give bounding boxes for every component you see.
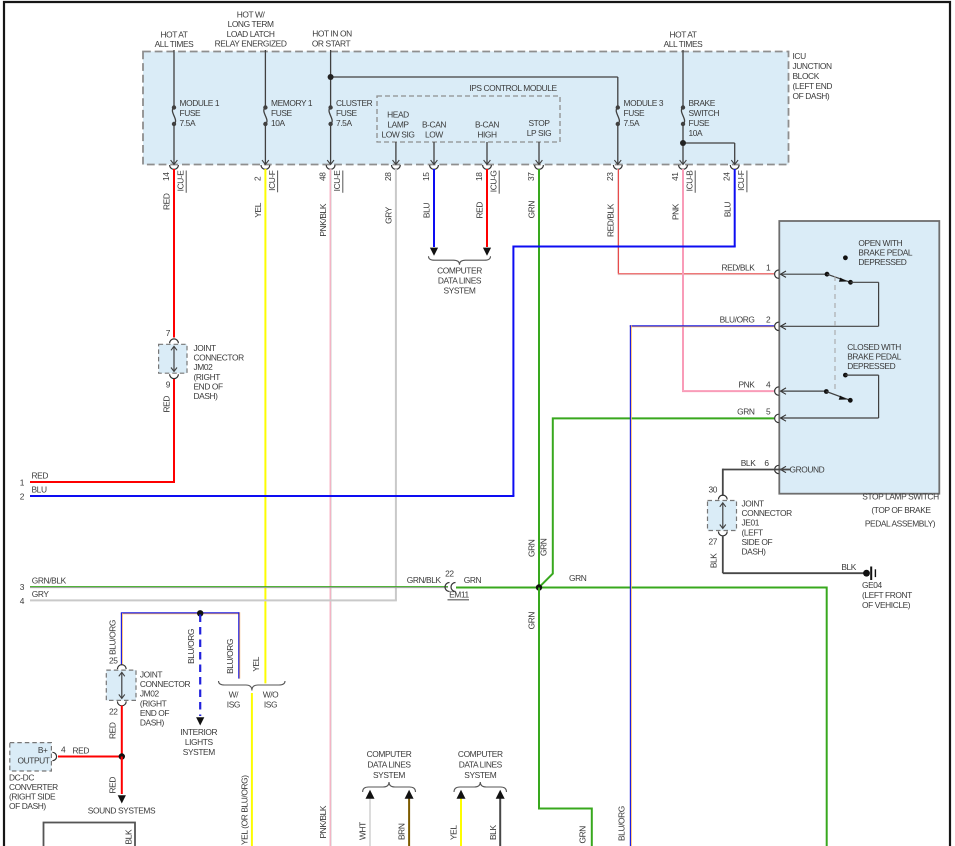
svg-text:ICU-E: ICU-E (332, 170, 342, 192)
svg-text:GRN: GRN (527, 612, 537, 630)
switch lower contact to pin 5 (781, 373, 879, 422)
merge brace W/ISG / W/O ISG (219, 681, 286, 710)
ground GE04 (863, 567, 875, 581)
switch upper (open with brake pedal depressed) (843, 238, 913, 267)
svg-text:GRN: GRN (527, 539, 537, 557)
svg-text:RED: RED (107, 777, 117, 794)
node HOT W/ LONG TERM LOAD LATCH RELAY ENERGIZED (215, 10, 287, 49)
svg-text:6: 6 (764, 458, 769, 468)
svg-text:DEPRESSED: DEPRESSED (858, 257, 906, 267)
pin 15 at ICU bottom edge (421, 165, 438, 181)
svg-text:JM02: JM02 (194, 362, 214, 372)
edge node 3 label (20, 575, 67, 592)
wire Cluster fuse to pin 48 (327, 124, 334, 165)
svg-text:24: 24 (722, 172, 732, 181)
svg-text:OF DASH): OF DASH) (793, 91, 830, 101)
svg-text:MODULE 3: MODULE 3 (624, 98, 664, 108)
wire BLK to computer data lines (bottom) (488, 790, 505, 846)
svg-text:DASH): DASH) (194, 391, 219, 401)
svg-text:ICU-G: ICU-G (489, 171, 499, 193)
svg-text:4: 4 (20, 596, 25, 606)
svg-text:COMPUTER: COMPUTER (437, 266, 482, 276)
stop lamp switch pin 4 (738, 380, 826, 396)
svg-text:RED/BLK: RED/BLK (721, 263, 755, 273)
svg-text:ICU: ICU (793, 51, 807, 61)
label GRN (vertical pair) (527, 538, 549, 557)
svg-text:PNK: PNK (738, 380, 755, 390)
svg-text:7.5A: 7.5A (336, 118, 352, 128)
pin 2 (ICU-F) at ICU bottom edge (252, 165, 277, 192)
svg-text:W/O: W/O (263, 690, 279, 700)
joint connector JM02 upper (pins 7/9) (159, 328, 187, 390)
joint connector JE01 (pins 30/27) (708, 485, 737, 547)
svg-text:DC-DC: DC-DC (9, 773, 34, 783)
svg-text:RED: RED (32, 471, 49, 481)
svg-text:(TOP OF BRAKE: (TOP OF BRAKE (871, 505, 931, 515)
system reference INTERIOR LIGHTS SYSTEM (180, 727, 217, 757)
svg-text:CONVERTER: CONVERTER (9, 782, 58, 792)
svg-text:OUTPUT: OUTPUT (17, 756, 49, 766)
wire RED to sound systems (arrow) (107, 757, 126, 804)
svg-text:OF VEHICLE): OF VEHICLE) (862, 600, 911, 610)
svg-text:BRN: BRN (397, 823, 407, 840)
system reference COMPUTER DATA LINES (bottom right) (454, 749, 507, 792)
DC-DC converter (B+ output box) (10, 743, 57, 771)
svg-text:MODULE 1: MODULE 1 (180, 98, 220, 108)
svg-text:HIGH: HIGH (477, 130, 497, 140)
svg-text:SOUND SYSTEMS: SOUND SYSTEMS (88, 806, 156, 816)
stop lamp switch pin 1 (721, 263, 827, 279)
svg-text:GRN/BLK: GRN/BLK (407, 575, 442, 585)
pin 24 (ICU-F) at ICU bottom edge (722, 165, 747, 192)
switch blade upper (825, 272, 853, 285)
svg-text:CLUSTER: CLUSTER (336, 98, 373, 108)
fuse MODULE 3 7.5A (616, 98, 664, 128)
svg-text:HEAD: HEAD (387, 110, 409, 120)
svg-text:JOINT: JOINT (742, 499, 764, 509)
IPS signal B-CAN HIGH (475, 120, 499, 165)
svg-text:4: 4 (61, 745, 66, 755)
svg-text:FUSE: FUSE (271, 108, 293, 118)
svg-text:YEL (OR BLU/ORG): YEL (OR BLU/ORG) (240, 775, 250, 845)
wire BLU/ORG branch (W/ ISG) (225, 612, 240, 678)
svg-text:10A: 10A (689, 128, 704, 138)
wire GRN junction down to bottom jog (527, 588, 592, 846)
svg-text:7.5A: 7.5A (180, 118, 196, 128)
wire GRN from EM11 to junction (456, 587, 539, 589)
wire PNK/BLK pin48 down to bottom (318, 169, 331, 846)
svg-text:DATA LINES: DATA LINES (367, 760, 411, 770)
svg-text:LP SIG: LP SIG (527, 128, 551, 138)
svg-text:(RIGHT: (RIGHT (140, 698, 167, 708)
fuse MEMORY 1 10A (263, 98, 313, 128)
wire RED JM02 pin22 to junction (107, 706, 121, 757)
wire Module 1 fuse to pin 14 (171, 124, 178, 165)
svg-text:1: 1 (20, 478, 25, 488)
svg-text:ICU-B: ICU-B (685, 170, 695, 192)
junction RED (119, 753, 125, 759)
svg-text:DEPRESSED: DEPRESSED (847, 361, 895, 371)
svg-text:LAMP: LAMP (387, 120, 409, 130)
svg-text:GROUND: GROUND (790, 465, 825, 475)
svg-text:DATA LINES: DATA LINES (459, 760, 503, 770)
pin 14 (ICU-E) at ICU bottom edge (161, 165, 186, 193)
svg-text:RED: RED (73, 746, 90, 756)
junction (hot in on branch) (328, 74, 334, 80)
wire feed to Memory 1 fuse (264, 50, 266, 108)
svg-text:3: 3 (20, 582, 25, 592)
svg-text:15: 15 (421, 172, 431, 181)
svg-text:GRY: GRY (32, 589, 50, 599)
svg-text:BLU: BLU (722, 202, 732, 217)
svg-text:LOW SIG: LOW SIG (381, 130, 414, 140)
svg-text:BLU/ORG: BLU/ORG (616, 806, 626, 841)
svg-text:DASH): DASH) (140, 718, 165, 728)
DC-DC converter label (9, 773, 58, 812)
svg-text:PNK/BLK: PNK/BLK (318, 805, 328, 838)
svg-text:MEMORY 1: MEMORY 1 (271, 98, 313, 108)
wire YEL to computer data lines (bottom) (449, 790, 466, 846)
svg-text:1: 1 (766, 263, 771, 273)
svg-text:ISG: ISG (264, 700, 277, 710)
svg-text:BRAKE PEDAL: BRAKE PEDAL (847, 352, 902, 362)
svg-text:22: 22 (109, 707, 118, 717)
svg-text:BLK: BLK (841, 562, 856, 572)
pin 18 (ICU-G) at ICU bottom edge (474, 165, 499, 194)
svg-text:JM02: JM02 (140, 689, 160, 699)
svg-text:GRN: GRN (539, 538, 549, 556)
svg-text:(RIGHT: (RIGHT (194, 372, 221, 382)
system reference COMPUTER DATA LINES (bottom left) (363, 749, 416, 792)
ICU junction block label (793, 51, 833, 101)
svg-text:28: 28 (383, 172, 393, 181)
wire BLU/ORG to JM02 pin 25 (107, 613, 122, 665)
svg-text:LIGHTS: LIGHTS (185, 737, 214, 747)
svg-text:41: 41 (670, 172, 680, 181)
svg-text:RED/BLK: RED/BLK (605, 203, 615, 237)
IPS signal STOP LP SIG (527, 118, 551, 165)
ICU junction block (box) (143, 52, 789, 165)
IPS signal HEAD LAMP LOW SIG (381, 110, 414, 165)
svg-text:22: 22 (445, 569, 454, 579)
svg-text:GE04: GE04 (862, 580, 883, 590)
wire GRN pin37 down to junction (527, 169, 539, 588)
joint connector JE01 label (742, 499, 793, 557)
joint connector JM02 lower (pins 25/22) (106, 656, 136, 717)
svg-text:30: 30 (708, 485, 717, 495)
svg-text:GRN: GRN (527, 201, 537, 219)
pin 48 (ICU-E) at ICU bottom edge (318, 165, 343, 193)
svg-text:IPS CONTROL MODULE: IPS CONTROL MODULE (469, 83, 557, 93)
svg-text:BLOCK: BLOCK (793, 71, 820, 81)
edge node 2 (BLU) (20, 485, 47, 502)
svg-text:STOP LAMP SWITCH: STOP LAMP SWITCH (862, 492, 939, 502)
edge node 4 (GRY) (20, 589, 50, 606)
svg-text:B-CAN: B-CAN (422, 120, 446, 130)
node HOT IN ON OR START (312, 29, 352, 49)
svg-text:HOT AT: HOT AT (160, 30, 187, 40)
svg-text:WHT: WHT (358, 822, 368, 840)
svg-text:ALL TIMES: ALL TIMES (664, 39, 704, 49)
svg-text:JOINT: JOINT (140, 670, 162, 680)
IPS signal B-CAN LOW (422, 120, 446, 165)
svg-text:EM11: EM11 (449, 590, 469, 600)
joint connector JM02 lower label (140, 670, 191, 728)
switch mechanical link (dashed) (834, 276, 836, 389)
wire GRY pin28 down and left to edge node 4 (30, 169, 397, 600)
system reference SOUND SYSTEMS (88, 806, 156, 816)
switch upper contact to pin 2 (781, 282, 879, 329)
svg-text:SIDE OF: SIDE OF (742, 537, 773, 547)
svg-text:48: 48 (318, 172, 328, 181)
svg-text:JE01: JE01 (742, 518, 760, 528)
IPS control module (dashed box) (377, 96, 560, 142)
svg-text:OF DASH): OF DASH) (9, 801, 46, 811)
svg-text:GRY: GRY (384, 206, 394, 224)
pin 28 at ICU bottom edge (383, 165, 400, 181)
svg-text:BRAKE: BRAKE (689, 98, 716, 108)
wire BLU/ORG distribution (horizontal) (121, 612, 239, 615)
svg-text:INTERIOR: INTERIOR (180, 727, 217, 737)
svg-text:JOINT: JOINT (194, 343, 216, 353)
wire Memory 1 fuse to pin 2 (262, 124, 269, 165)
svg-text:(LEFT FRONT: (LEFT FRONT (862, 590, 912, 600)
wire BLK stop lamp pin6 to JE01 pin 30 (723, 469, 790, 496)
wire GRN stop lamp pin5 to junction (540, 418, 774, 586)
svg-text:7: 7 (166, 328, 171, 338)
svg-text:37: 37 (526, 172, 536, 181)
stop lamp switch (box) (779, 221, 939, 494)
fuse MODULE 1 7.5A (172, 98, 220, 128)
svg-text:2: 2 (252, 176, 262, 181)
inline connector EM11 pin 22 (407, 569, 482, 600)
svg-text:BLU: BLU (32, 485, 47, 495)
pin 23 at ICU bottom edge (605, 165, 622, 181)
wire PNK pin41 to stop lamp switch pin4 (671, 169, 774, 391)
svg-text:BLK: BLK (708, 553, 718, 568)
svg-text:RELAY ENERGIZED: RELAY ENERGIZED (215, 38, 287, 48)
wire feed to Brake Switch fuse (682, 50, 684, 108)
svg-text:COMPUTER: COMPUTER (458, 749, 503, 759)
svg-text:HOT AT: HOT AT (669, 30, 696, 40)
svg-text:W/: W/ (229, 690, 240, 700)
svg-text:PNK: PNK (671, 203, 681, 220)
wire feed to Cluster fuse (330, 50, 332, 108)
svg-text:CONNECTOR: CONNECTOR (742, 508, 793, 518)
stop lamp switch pin 2 (720, 315, 779, 331)
wire RED pin18 to computer data lines (arrow) (475, 169, 492, 256)
wire GRN junction to right (down at x=827) (539, 573, 827, 846)
svg-text:10A: 10A (271, 118, 286, 128)
svg-text:END OF: END OF (194, 381, 224, 391)
svg-text:9: 9 (166, 380, 171, 390)
node HOT AT ALL TIMES (left) (155, 30, 195, 50)
svg-text:BLU/ORG: BLU/ORG (225, 639, 235, 674)
svg-text:DASH): DASH) (742, 547, 767, 557)
svg-text:BLU/ORG: BLU/ORG (107, 620, 117, 655)
wire YEL pin2 down (253, 169, 265, 683)
svg-text:ISG: ISG (227, 700, 240, 710)
svg-text:CLOSED WITH: CLOSED WITH (847, 342, 901, 352)
svg-text:BLU/ORG: BLU/ORG (186, 629, 196, 664)
wire BLU pin15 to computer data lines (arrow) (422, 169, 439, 256)
pin 41 (ICU-B) at ICU bottom edge (670, 165, 695, 193)
svg-text:END OF: END OF (140, 708, 170, 718)
svg-text:SYSTEM: SYSTEM (373, 770, 405, 780)
wire RED DC-DC pin4 to junction (58, 745, 122, 757)
switch lower (closed with brake pedal depressed) (847, 342, 902, 371)
svg-text:25: 25 (109, 656, 118, 666)
switch blade lower (824, 389, 853, 403)
IPS control module label (469, 83, 557, 93)
wire Brake Switch fuse to pins 41/24 (680, 124, 739, 165)
svg-text:LOW: LOW (425, 130, 443, 140)
svg-text:ICU-F: ICU-F (267, 170, 277, 191)
label YEL (W/O ISG branch) (251, 656, 261, 671)
svg-text:BLK: BLK (124, 829, 134, 844)
svg-text:GRN: GRN (569, 573, 587, 583)
svg-text:JUNCTION: JUNCTION (793, 61, 832, 71)
svg-text:GRN: GRN (464, 575, 482, 585)
svg-text:5: 5 (766, 407, 771, 417)
svg-text:COMPUTER: COMPUTER (367, 749, 412, 759)
svg-text:FUSE: FUSE (336, 108, 358, 118)
svg-text:CONNECTOR: CONNECTOR (140, 679, 191, 689)
svg-text:(RIGHT SIDE: (RIGHT SIDE (9, 792, 56, 802)
svg-text:GRN/BLK: GRN/BLK (32, 575, 67, 585)
svg-text:BLU/ORG: BLU/ORG (720, 315, 755, 325)
edge node 1 (RED) wire (30, 379, 175, 482)
wire RED/BLK pin23 to stop lamp switch pin1 (605, 169, 774, 275)
svg-text:(LEFT END: (LEFT END (793, 81, 833, 91)
svg-text:RED: RED (162, 396, 172, 413)
svg-text:SYSTEM: SYSTEM (183, 747, 215, 757)
svg-text:RED: RED (475, 202, 485, 219)
wire BLU/ORG stop lamp pin2 down to bottom (616, 325, 774, 846)
junction GRN (node) (536, 584, 542, 590)
svg-text:ICU-E: ICU-E (176, 170, 186, 192)
edge node 1 label (20, 471, 49, 488)
svg-text:HOT W/: HOT W/ (237, 10, 266, 20)
sound systems component box (partial) (44, 823, 136, 846)
wire Module 3 fuse to pin 23 (614, 124, 621, 165)
wire BLU pin24 to edge node 2 (30, 169, 736, 496)
stop lamp switch label (862, 492, 939, 529)
stop lamp switch pin 6 (ground) (741, 458, 825, 475)
fuse BRAKE SWITCH 10A (681, 98, 720, 138)
svg-text:18: 18 (474, 172, 484, 181)
svg-text:B+: B+ (38, 745, 48, 755)
svg-text:OPEN WITH: OPEN WITH (858, 238, 902, 248)
fuse CLUSTER 7.5A (328, 98, 372, 128)
system reference COMPUTER DATA LINES (top) (429, 256, 491, 295)
svg-text:HOT IN ON: HOT IN ON (312, 29, 352, 39)
svg-text:ICU-F: ICU-F (736, 170, 746, 191)
svg-text:FUSE: FUSE (624, 108, 646, 118)
stop lamp switch pin 5 (737, 407, 779, 423)
joint connector JM02 upper label (194, 343, 245, 401)
svg-text:BLU: BLU (422, 203, 432, 218)
wire BRN to computer data lines (397, 790, 414, 846)
svg-text:STOP: STOP (528, 118, 550, 128)
svg-text:GRN: GRN (737, 407, 755, 417)
svg-text:27: 27 (708, 537, 717, 547)
svg-text:RED: RED (162, 193, 172, 210)
svg-text:ALL TIMES: ALL TIMES (155, 39, 195, 49)
svg-text:B-CAN: B-CAN (475, 120, 499, 130)
svg-text:4: 4 (766, 380, 771, 390)
wire RED pin14 to joint connector JM02 pin7 (162, 169, 174, 338)
svg-text:FUSE: FUSE (689, 118, 711, 128)
node HOT AT ALL TIMES (right) (664, 30, 704, 50)
svg-text:LONG TERM: LONG TERM (228, 19, 274, 29)
wire branch to Module 3 fuse (331, 77, 618, 108)
svg-text:YEL: YEL (449, 825, 459, 840)
svg-text:SYSTEM: SYSTEM (443, 286, 475, 296)
svg-text:DATA LINES: DATA LINES (438, 276, 482, 286)
svg-text:(LEFT: (LEFT (742, 527, 764, 537)
svg-text:CONNECTOR: CONNECTOR (194, 353, 245, 363)
svg-text:2: 2 (766, 315, 771, 325)
svg-text:BLK: BLK (741, 458, 756, 468)
svg-text:BLK: BLK (488, 825, 498, 840)
svg-text:BRAKE PEDAL: BRAKE PEDAL (858, 248, 913, 258)
ground GE04 label (862, 580, 912, 610)
svg-text:RED: RED (107, 722, 117, 739)
svg-text:23: 23 (605, 172, 615, 181)
wire YEL (OR BLU/ORG) to bottom (240, 693, 252, 846)
junction BLU/ORG (197, 610, 203, 616)
svg-text:7.5A: 7.5A (624, 118, 640, 128)
wire BLK JE01 pin27 to ground GE04 (708, 536, 864, 574)
wire GRN/BLK edge node 3 to connector EM11 (30, 586, 448, 589)
pin 37 at ICU bottom edge (526, 165, 543, 181)
svg-text:SYSTEM: SYSTEM (464, 770, 496, 780)
wire feed to Module 1 fuse (173, 50, 175, 108)
svg-text:14: 14 (161, 172, 171, 181)
svg-text:SWITCH: SWITCH (689, 108, 720, 118)
svg-text:GRN: GRN (577, 826, 587, 844)
svg-text:OR START: OR START (312, 39, 351, 49)
wire BLU/ORG dashed to interior lights system (186, 615, 205, 726)
svg-text:YEL: YEL (251, 656, 261, 671)
svg-text:YEL: YEL (253, 202, 263, 217)
svg-text:2: 2 (20, 492, 25, 502)
wire WHT to computer data lines (358, 790, 375, 846)
svg-text:FUSE: FUSE (180, 108, 202, 118)
svg-text:PEDAL ASSEMBLY): PEDAL ASSEMBLY) (865, 519, 936, 529)
svg-text:PNK/BLK: PNK/BLK (318, 203, 328, 236)
